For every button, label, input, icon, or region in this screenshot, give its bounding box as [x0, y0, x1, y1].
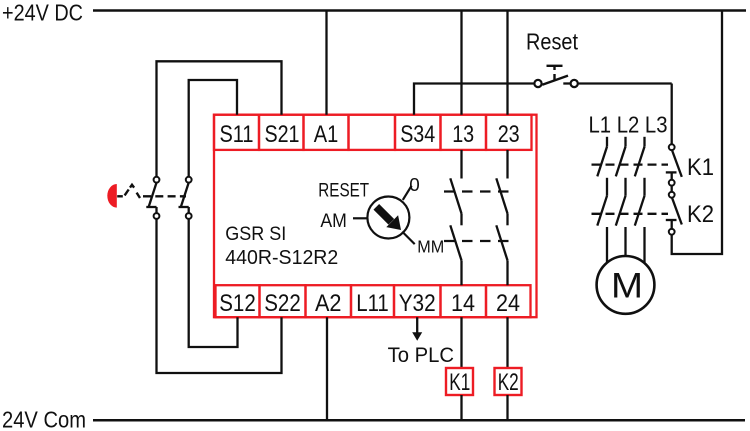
24V Com rail [93, 419, 745, 422]
motor M [597, 256, 655, 314]
wire contact1 bottom to S22 [157, 219, 282, 373]
phase L1 K1 contact [606, 137, 608, 147]
svg-text:S12: S12 [219, 290, 256, 317]
e-stop linkage dashes [143, 195, 186, 197]
e-stop contact 1 [146, 177, 191, 219]
svg-text:K2: K2 [498, 369, 519, 396]
wire A1 to +24V [325, 11, 327, 115]
svg-text:L1 L2 L3: L1 L2 L3 [589, 111, 668, 137]
knob AM tick [353, 217, 367, 219]
terminal A1 [304, 115, 349, 150]
terminal 24 [486, 285, 531, 317]
reset switch right terminal [571, 80, 578, 87]
terminal blank [349, 115, 396, 150]
wire contact2 top to S11 [189, 80, 237, 177]
terminal 13 [441, 115, 487, 150]
wire down to K1 aux [671, 84, 673, 145]
svg-text:RESET: RESET [318, 181, 369, 202]
svg-text:To PLC: To PLC [388, 343, 454, 367]
terminal S12 [216, 285, 260, 317]
svg-text:+24V DC: +24V DC [2, 0, 83, 25]
wire 24 to K2 coil [506, 317, 508, 368]
mechanical link dashes row 2 [444, 240, 514, 242]
mechanical link dashes row 1 [444, 190, 514, 192]
phase L1 K2 contact [597, 196, 607, 226]
svg-text:S34: S34 [400, 121, 435, 148]
svg-text:13: 13 [452, 121, 474, 148]
terminal S11 [214, 115, 532, 318]
reset switch blade [542, 76, 568, 85]
svg-text:14: 14 [451, 290, 475, 317]
wire contact2 bottom to S12 [189, 219, 238, 347]
svg-text:24V Com: 24V Com [2, 407, 86, 431]
svg-text:Reset: Reset [526, 29, 578, 55]
phase L2 K2 contact [616, 196, 626, 226]
relay contact 13-14 pole 2 [450, 225, 461, 260]
knob MM tick [402, 232, 415, 245]
reset switch [534, 66, 577, 87]
Y32 arrow to PLC [416, 317, 418, 333]
svg-text:S22: S22 [264, 290, 301, 317]
svg-text:AM: AM [320, 211, 347, 232]
wire 23 to +24V [506, 11, 508, 115]
wire K2 coil to 24V Com [506, 395, 508, 420]
e-stop linkage caret apex [130, 185, 134, 188]
wire K1 coil to 24V Com [460, 395, 462, 420]
wire contact1 top to S21 [157, 61, 282, 373]
K2 coil box [495, 368, 522, 395]
svg-text:K1: K1 [687, 154, 714, 181]
K1 aux contact [666, 144, 682, 185]
e-stop linkage caret dash 2 [137, 193, 140, 198]
K1 link dashes [592, 163, 669, 165]
relay contact 23-24 pole 2 [496, 225, 507, 260]
K2 aux contact [666, 192, 682, 235]
terminal Y32 [394, 285, 441, 317]
e-stop contact 2 [186, 177, 192, 183]
knob arrow [376, 207, 401, 230]
svg-text:M: M [611, 267, 643, 306]
phase L3 K2 contact [635, 196, 645, 226]
reset switch left terminal [534, 80, 541, 87]
svg-text:24: 24 [496, 290, 520, 317]
reset selector knob [353, 186, 415, 244]
phase L2 K1 contact [624, 137, 626, 147]
+24V DC rail [93, 9, 746, 12]
svg-text:Y32: Y32 [399, 290, 436, 317]
svg-text:K2: K2 [687, 201, 714, 228]
knob 0 tick [403, 186, 412, 200]
wire K2 aux to +24V [672, 11, 722, 255]
svg-text:GSR SI: GSR SI [225, 223, 286, 245]
svg-text:A2: A2 [315, 290, 342, 317]
e-stop mushroom button [107, 184, 116, 208]
svg-text:MM: MM [417, 236, 444, 256]
wire S34 to reset switch [414, 84, 535, 115]
terminal S22 [260, 285, 306, 317]
contactor K1 main contacts [592, 137, 669, 263]
svg-text:K1: K1 [449, 369, 470, 396]
svg-text:L11: L11 [356, 290, 389, 317]
K2 link dashes [592, 213, 669, 215]
K1 coil box [446, 368, 473, 395]
phase L3 K1 contact [643, 137, 645, 147]
terminal 23 [486, 115, 532, 150]
svg-text:S11: S11 [220, 121, 254, 148]
terminal A2 [306, 285, 352, 317]
wire 13 to +24V [460, 11, 462, 115]
terminal L11 [351, 285, 394, 317]
terminal S21 [259, 115, 304, 150]
e-stop linkage dash [117, 195, 123, 197]
terminal labels top row [219, 121, 520, 317]
e-stop linkage caret dash 1 [125, 190, 129, 196]
svg-text:440R-S12R2: 440R-S12R2 [225, 246, 338, 269]
wire reset switch to K1K2 chain [578, 82, 672, 84]
relay contact 23-24 pole 1 [506, 150, 508, 179]
svg-text:S21: S21 [265, 121, 300, 148]
terminal 14 [441, 285, 487, 317]
wire 14 to K1 coil [460, 317, 462, 368]
relay module U1 outline [214, 115, 537, 318]
wire K1 aux to K2 aux [671, 186, 673, 192]
relay contact 13-14 pole 1 [444, 150, 514, 285]
svg-text:23: 23 [498, 121, 520, 148]
wire A2 to 24V Com [326, 317, 328, 420]
svg-text:0: 0 [409, 175, 420, 195]
terminal S34 [395, 115, 441, 150]
svg-text:A1: A1 [314, 121, 339, 148]
